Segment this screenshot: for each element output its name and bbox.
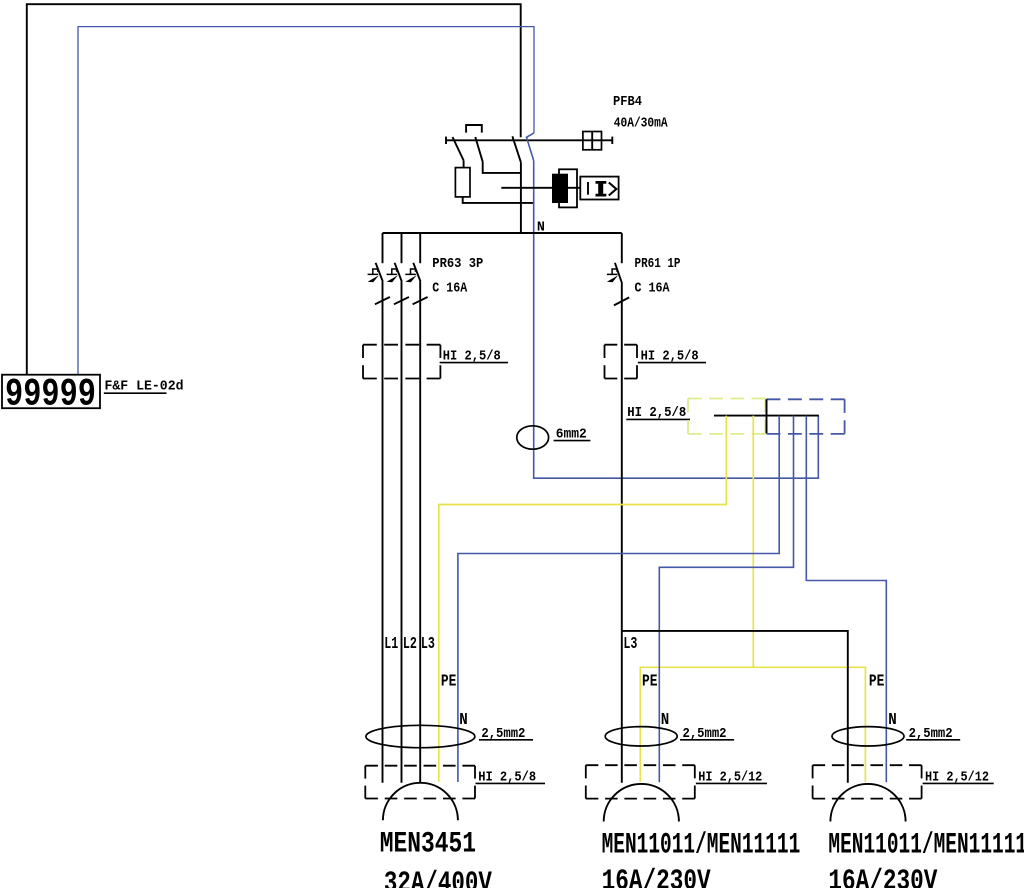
svg-text:L1: L1: [384, 634, 398, 653]
test button bracket: [466, 125, 482, 133]
strip bus bar: [714, 415, 819, 417]
svg-text:MEN3451: MEN3451: [380, 828, 476, 862]
label underline (strip): [626, 418, 690, 420]
terminal box HI 2,5/8 (3P): [363, 345, 440, 379]
wire L3 branch socket2 to socket3 (black): [622, 631, 848, 783]
energy meter kWh box: [2, 375, 100, 409]
terminal box HI 2,5/12 socket2: [586, 765, 695, 798]
strip divider line: [766, 399, 768, 433]
svg-text:PE: PE: [441, 672, 457, 691]
wire L supply from meter to RCD (black border): [27, 4, 521, 375]
socket arc MEN3451: [383, 783, 458, 821]
svg-text:40A/30mA: 40A/30mA: [614, 116, 668, 132]
svg-text:L3: L3: [421, 634, 435, 653]
svg-text:F&F LE-02d: F&F LE-02d: [105, 378, 184, 394]
wire resistor to N: [463, 197, 534, 203]
link bar right end tick: [611, 137, 613, 144]
RCD pole N blade (blue): [527, 133, 535, 161]
svg-text:MEN11011/MEN11111: MEN11011/MEN11111: [828, 828, 1024, 862]
wire N supply from meter to RCD (blue border): [78, 27, 534, 375]
wire PE2 split (yellow) to socket2 and socket3: [640, 667, 865, 782]
breaker PR63 3P pole L3: [405, 233, 427, 783]
svg-text:N: N: [459, 710, 468, 729]
underline socket2: [680, 739, 734, 741]
svg-text:PR63 3P: PR63 3P: [432, 256, 483, 272]
svg-text:16A/230V: 16A/230V: [828, 865, 937, 888]
svg-text:16A/230V: 16A/230V: [602, 865, 711, 888]
trip relay box I>: [580, 177, 618, 200]
RCD pole L blade: [512, 136, 521, 162]
underline socket2 box: [696, 782, 767, 784]
RCD pole L lower wire: [520, 162, 522, 233]
socket arc socket3: [830, 784, 905, 822]
svg-text:32A/400V: 32A/400V: [384, 867, 492, 888]
svg-text:PFB4: PFB4: [613, 94, 642, 110]
cable ellipse socket3: [832, 727, 904, 746]
svg-text:C 16A: C 16A: [432, 281, 467, 297]
svg-text:HI 2,5/8: HI 2,5/8: [627, 405, 686, 421]
wire N3 (blue) strip to socket3: [806, 416, 886, 783]
cable ellipse socket2: [605, 727, 677, 746]
underline socket3: [906, 739, 960, 741]
label underline: [104, 392, 167, 394]
CT sensing line: [501, 187, 552, 189]
CT core (filled): [552, 174, 568, 203]
marker ellipse 6mm2: [517, 426, 549, 449]
breaker PR63 3P pole L2: [387, 233, 409, 783]
CT stub line: [566, 187, 581, 189]
actuator box mid line: [591, 132, 593, 150]
terminal box HI 2,5/8 socket1: [365, 766, 475, 799]
svg-text:C 16A: C 16A: [635, 281, 670, 297]
cable ellipse socket1: [366, 725, 475, 747]
svg-text:PR61 1P: PR61 1P: [635, 256, 681, 272]
PE terminal box (yellow dashed): [688, 399, 765, 434]
N terminal box (blue dashed): [767, 399, 845, 434]
wire PE1 (yellow) strip to socket1: [439, 416, 727, 782]
svg-text:L3: L3: [623, 634, 637, 653]
test contact blade 2: [475, 137, 482, 162]
underline socket1: [479, 739, 533, 741]
test resistor box: [455, 168, 470, 197]
wire to test resistor: [463, 160, 465, 167]
svg-text:L2: L2: [403, 634, 417, 653]
wire N down through diagram (blue): [534, 161, 819, 479]
svg-text:PE: PE: [642, 672, 658, 691]
terminal box HI 2,5/12 socket3: [813, 765, 922, 798]
wire N1 (blue) strip to socket1: [458, 416, 779, 782]
breaker PR63 3P pole L1: [368, 233, 390, 783]
wire N2 (blue) strip to socket2: [659, 416, 793, 783]
underline socket3 box: [923, 782, 994, 784]
socket arc socket2: [604, 784, 679, 822]
RCD PFB4 : mechanical link bar: [446, 139, 612, 141]
svg-text:N: N: [661, 710, 670, 729]
label underline 6mm2: [554, 440, 591, 442]
svg-text:MEN11011/MEN11111: MEN11011/MEN11111: [602, 828, 801, 862]
relay > glyph: [609, 183, 617, 196]
terminal box HI 2,5/8 (1P): [605, 345, 638, 379]
CT secondary outline box: [559, 169, 577, 207]
svg-text:N: N: [888, 710, 897, 729]
relay I glyph: [596, 181, 607, 197]
underline socket1 box: [476, 782, 546, 784]
test contact blade 1: [453, 137, 464, 160]
breaker PR61 1P pole: [607, 233, 629, 783]
actuator crossed box: [583, 132, 602, 150]
wire PE2 (yellow) strip down: [752, 416, 754, 668]
relay tick: [587, 182, 589, 195]
svg-text:99999: 99999: [5, 373, 96, 417]
bus after RCD: [383, 232, 622, 234]
wire contact 2 to pole: [483, 162, 521, 173]
label underline (3P): [440, 362, 508, 364]
svg-text:PE: PE: [869, 672, 885, 691]
label underline (1P): [638, 362, 706, 364]
link bar left end tick: [445, 137, 447, 144]
